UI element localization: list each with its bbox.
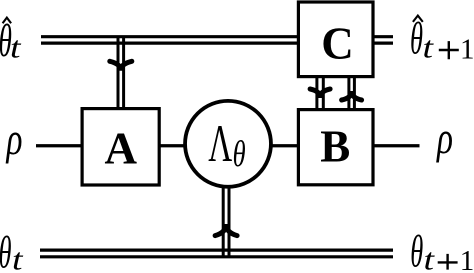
svg-text:θ: θ (410, 14, 423, 64)
svg-text:θ: θ (233, 134, 246, 175)
svg-text:Λ: Λ (208, 115, 232, 173)
svg-text:θ: θ (410, 227, 423, 273)
svg-text:t: t (423, 30, 435, 65)
svg-text:t: t (10, 29, 22, 64)
svg-text:1: 1 (460, 34, 474, 66)
svg-text:ρ: ρ (436, 113, 453, 163)
svg-text:ρ: ρ (5, 114, 22, 164)
svg-text:θ: θ (0, 227, 12, 273)
svg-text:C: C (321, 18, 354, 68)
svg-text:1: 1 (460, 245, 474, 273)
svg-text:B: B (320, 121, 350, 171)
svg-text:t: t (12, 241, 24, 273)
svg-text:t: t (424, 241, 436, 273)
svg-text:A: A (104, 123, 137, 173)
